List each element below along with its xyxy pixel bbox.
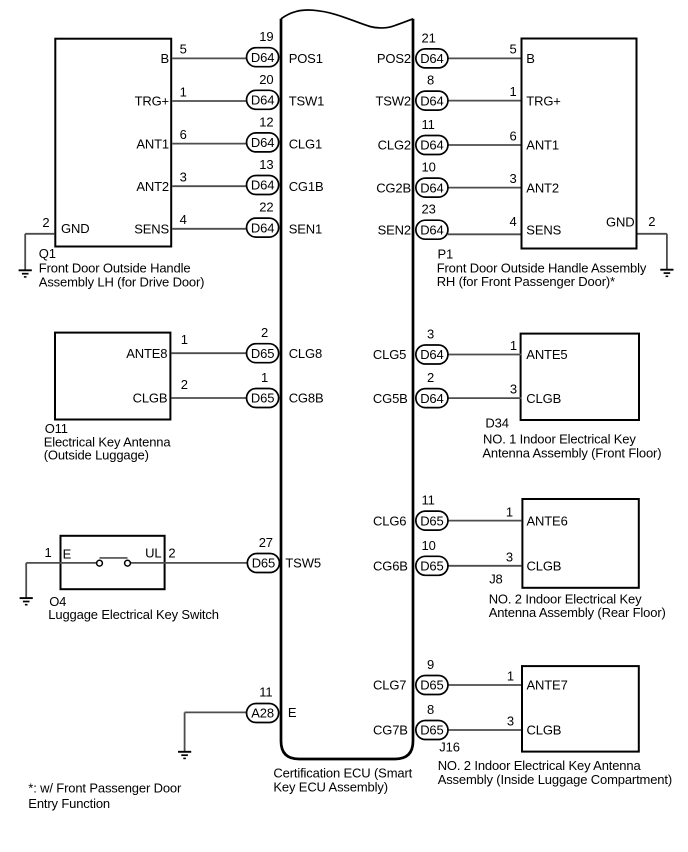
svg-text:1: 1 — [510, 338, 517, 353]
svg-text:D64: D64 — [420, 391, 443, 406]
svg-text:12: 12 — [259, 114, 273, 129]
svg-text:9: 9 — [427, 657, 434, 672]
svg-text:D65: D65 — [420, 678, 443, 693]
svg-text:10: 10 — [422, 538, 436, 553]
svg-text:23: 23 — [422, 202, 436, 217]
svg-text:ANTE5: ANTE5 — [526, 347, 567, 362]
svg-text:UL: UL — [145, 546, 161, 561]
svg-text:E: E — [63, 546, 72, 561]
svg-text:2: 2 — [181, 377, 188, 392]
svg-text:3: 3 — [510, 171, 517, 186]
svg-text:POS1: POS1 — [289, 51, 323, 66]
svg-text:TSW2: TSW2 — [375, 93, 411, 108]
svg-text:CG1B: CG1B — [289, 179, 324, 194]
svg-text:3: 3 — [507, 713, 514, 728]
svg-text:4: 4 — [180, 212, 187, 227]
svg-text:TSW1: TSW1 — [289, 94, 325, 109]
svg-text:D64: D64 — [420, 180, 443, 195]
svg-text:SENS: SENS — [134, 222, 169, 237]
svg-text:1: 1 — [180, 84, 187, 99]
svg-text:TSW5: TSW5 — [285, 556, 321, 571]
svg-text:5: 5 — [180, 42, 187, 57]
svg-text:A28: A28 — [251, 706, 274, 721]
svg-text:POS2: POS2 — [377, 51, 411, 66]
svg-text:8: 8 — [427, 73, 434, 88]
svg-text:D64: D64 — [251, 135, 274, 150]
svg-text:D64: D64 — [251, 178, 274, 193]
svg-text:8: 8 — [427, 702, 434, 717]
svg-text:13: 13 — [259, 157, 273, 172]
svg-text:ANTE8: ANTE8 — [126, 346, 167, 361]
svg-text:ANT2: ANT2 — [136, 179, 169, 194]
svg-text:D65: D65 — [420, 723, 443, 738]
svg-text:CLG6: CLG6 — [373, 513, 406, 528]
svg-text:Front Door Outside Handle: Front Door Outside Handle — [39, 260, 191, 275]
svg-text:Assembly (Inside Luggage Compa: Assembly (Inside Luggage Compartment) — [438, 772, 672, 787]
svg-text:20: 20 — [259, 72, 273, 87]
svg-text:J8: J8 — [489, 571, 502, 586]
svg-text:1: 1 — [510, 84, 517, 99]
svg-text:3: 3 — [180, 170, 187, 185]
svg-text:D64: D64 — [251, 93, 274, 108]
svg-text:Q1: Q1 — [39, 246, 56, 261]
svg-text:1: 1 — [507, 668, 514, 683]
svg-text:3: 3 — [510, 381, 517, 396]
svg-text:6: 6 — [510, 128, 517, 143]
svg-text:GND: GND — [61, 221, 89, 236]
svg-text:B: B — [526, 51, 535, 66]
svg-text:11: 11 — [422, 493, 435, 508]
svg-text:ANTE7: ANTE7 — [527, 678, 568, 693]
svg-text:Assembly LH (for Drive Door): Assembly LH (for Drive Door) — [39, 274, 205, 289]
svg-text:27: 27 — [259, 535, 273, 550]
svg-text:1: 1 — [261, 370, 268, 385]
svg-text:Entry Function: Entry Function — [28, 796, 110, 811]
svg-text:RH (for Front Passenger Door)*: RH (for Front Passenger Door)* — [437, 274, 615, 289]
svg-text:2: 2 — [427, 370, 434, 385]
svg-text:19: 19 — [259, 29, 273, 44]
svg-text:SEN1: SEN1 — [289, 222, 322, 237]
svg-text:TRG+: TRG+ — [135, 94, 169, 109]
svg-text:1: 1 — [506, 504, 513, 519]
svg-text:5: 5 — [510, 42, 517, 57]
svg-text:1: 1 — [181, 332, 188, 347]
svg-text:*: w/ Front Passenger Door: *: w/ Front Passenger Door — [28, 781, 182, 796]
svg-text:22: 22 — [259, 200, 273, 215]
svg-text:B: B — [160, 51, 169, 66]
svg-text:D65: D65 — [420, 513, 443, 528]
svg-text:10: 10 — [422, 160, 436, 175]
svg-text:D65: D65 — [252, 556, 275, 571]
svg-text:Luggage Electrical Key Switch: Luggage Electrical Key Switch — [48, 607, 219, 622]
svg-text:Key ECU Assembly): Key ECU Assembly) — [273, 779, 387, 794]
svg-text:4: 4 — [510, 214, 517, 229]
svg-text:D64: D64 — [251, 220, 274, 235]
svg-text:D64: D64 — [420, 347, 443, 362]
svg-text:CLG5: CLG5 — [373, 347, 406, 362]
svg-text:CLG7: CLG7 — [373, 678, 406, 693]
svg-text:E: E — [288, 705, 297, 720]
svg-text:P1: P1 — [438, 246, 454, 261]
svg-text:CLG8: CLG8 — [289, 346, 322, 361]
svg-text:Certification ECU (Smart: Certification ECU (Smart — [273, 765, 412, 780]
svg-text:CG6B: CG6B — [373, 559, 408, 574]
svg-text:CLGB: CLGB — [527, 559, 562, 574]
svg-text:2: 2 — [648, 214, 655, 229]
svg-text:11: 11 — [422, 117, 435, 132]
svg-text:D64: D64 — [251, 50, 274, 65]
svg-text:3: 3 — [506, 550, 513, 565]
svg-text:CG8B: CG8B — [289, 391, 324, 406]
svg-text:SEN2: SEN2 — [378, 222, 411, 237]
svg-text:D65: D65 — [420, 559, 443, 574]
svg-text:ANT1: ANT1 — [526, 138, 559, 153]
svg-text:CLGB: CLGB — [527, 723, 562, 738]
svg-text:CLGB: CLGB — [526, 391, 561, 406]
svg-text:CG5B: CG5B — [373, 391, 408, 406]
svg-text:21: 21 — [422, 30, 436, 45]
svg-text:ANT1: ANT1 — [136, 136, 169, 151]
svg-text:SENS: SENS — [526, 222, 561, 237]
svg-text:CG7B: CG7B — [373, 723, 408, 738]
svg-text:(Outside Luggage): (Outside Luggage) — [44, 448, 149, 463]
svg-text:ANT2: ANT2 — [526, 180, 559, 195]
svg-text:CG2B: CG2B — [376, 180, 411, 195]
svg-text:2: 2 — [261, 325, 268, 340]
svg-text:D64: D64 — [420, 138, 443, 153]
svg-text:1: 1 — [45, 545, 52, 560]
svg-text:CLG1: CLG1 — [289, 136, 322, 151]
svg-text:D65: D65 — [251, 391, 274, 406]
svg-text:Antenna Assembly (Front Floor): Antenna Assembly (Front Floor) — [482, 445, 661, 460]
svg-text:J16: J16 — [439, 740, 460, 755]
svg-text:NO. 2 Indoor Electrical Key An: NO. 2 Indoor Electrical Key Antenna — [438, 758, 642, 773]
svg-text:2: 2 — [168, 546, 175, 561]
svg-text:CLG2: CLG2 — [378, 138, 411, 153]
svg-text:11: 11 — [259, 685, 272, 700]
svg-text:ANTE6: ANTE6 — [527, 513, 568, 528]
svg-text:D34: D34 — [485, 416, 508, 431]
svg-text:Antenna Assembly (Rear Floor): Antenna Assembly (Rear Floor) — [489, 605, 666, 620]
svg-text:TRG+: TRG+ — [526, 93, 560, 108]
svg-text:D64: D64 — [420, 51, 443, 66]
svg-text:D65: D65 — [251, 346, 274, 361]
svg-text:3: 3 — [427, 327, 434, 342]
svg-text:CLGB: CLGB — [133, 391, 168, 406]
svg-text:6: 6 — [180, 127, 187, 142]
svg-text:D64: D64 — [420, 93, 443, 108]
svg-text:GND: GND — [606, 214, 634, 229]
svg-text:2: 2 — [42, 215, 49, 230]
svg-text:D64: D64 — [420, 222, 443, 237]
